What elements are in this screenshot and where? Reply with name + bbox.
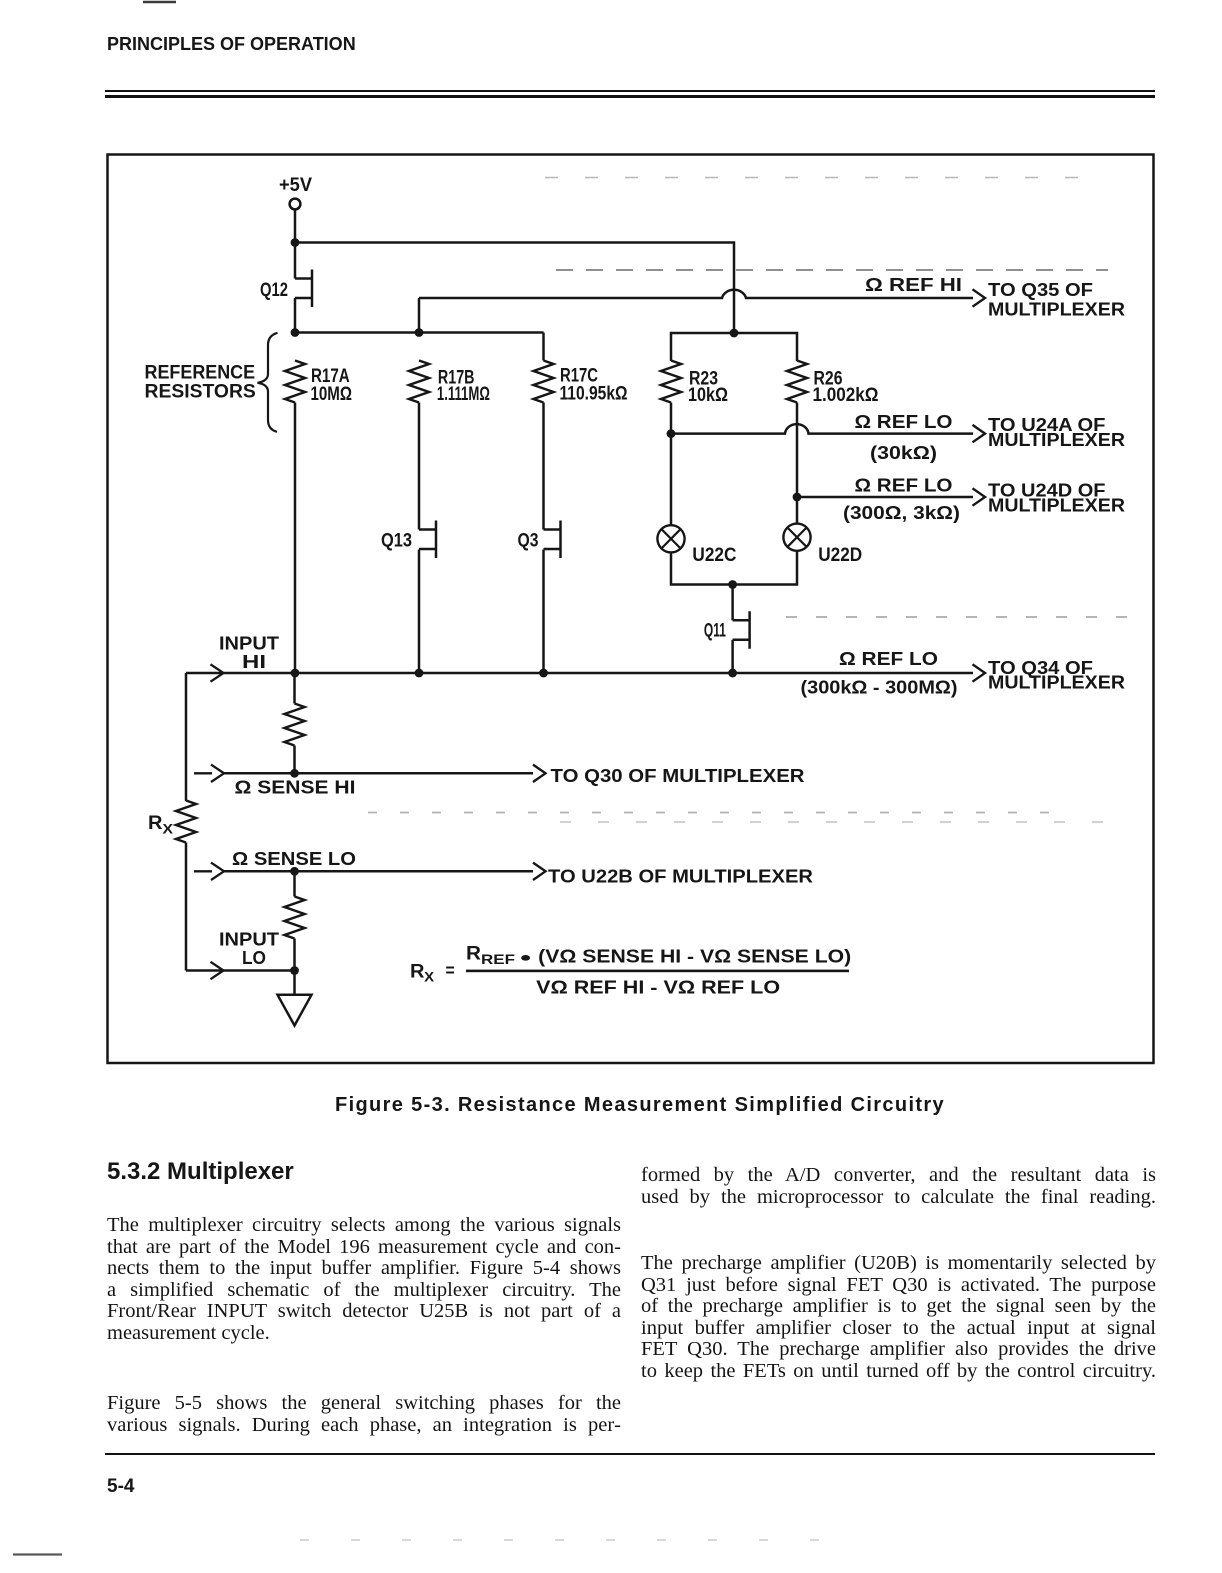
wire to ground: [293, 971, 296, 995]
right column paragraph 1: [641, 1165, 1156, 1208]
svg-text:Ω SENSE LO: Ω SENSE LO: [232, 848, 356, 869]
wire R26 to node: [796, 403, 799, 498]
resistor RX unknown: [176, 801, 196, 843]
svg-text:10kΩ: 10kΩ: [688, 385, 728, 406]
wire ΩREF HI line with hop: [419, 290, 973, 298]
wire Q3 to input bus: [542, 550, 545, 674]
wire Ω SENSE LO dashed stub: [194, 870, 212, 872]
wire R23 to node: [670, 403, 673, 434]
wire sense resistor top: [293, 673, 296, 704]
transistor Q3: [518, 521, 561, 559]
wire left rail lower: [185, 843, 188, 971]
wire Ω SENSE HI line: [224, 772, 533, 775]
transistor Q12: [260, 270, 312, 308]
footer rule: [105, 1453, 1155, 1456]
wire INPUT LO line: [186, 969, 295, 972]
wire +5V top rail to R23-R26 bus: [295, 243, 734, 334]
wire INPUT HI bus: [186, 672, 973, 675]
arrow Ω SENSE HI to Q30: [533, 765, 546, 782]
svg-text:X: X: [424, 969, 435, 985]
svg-text:Ω REF HI: Ω REF HI: [865, 274, 962, 295]
svg-text:1.111MΩ: 1.111MΩ: [437, 384, 490, 405]
left column paragraph 2: [107, 1393, 621, 1436]
svg-text:Q13: Q13: [381, 530, 412, 551]
resistor sense LO: [285, 897, 305, 939]
label TO Q35 OF MULTIPLEXER: [988, 279, 1125, 320]
svg-text:Q12: Q12: [260, 280, 288, 301]
svg-text:Ω REF LO: Ω REF LO: [855, 475, 953, 496]
svg-text:TO Q35 OF: TO Q35 OF: [988, 279, 1093, 300]
wire R17B to Q13: [418, 403, 421, 530]
node ΩREF LO 300 tap: [793, 493, 802, 502]
wire +5V to Q12 drain: [294, 209, 297, 278]
svg-text:(300Ω, 3kΩ): (300Ω, 3kΩ): [843, 502, 960, 523]
svg-text:RESISTORS: RESISTORS: [145, 381, 256, 402]
arrow ΩREF LO 300k-300M: [973, 664, 986, 681]
node sense LO at column: [290, 867, 299, 876]
node sense HI at R17A column: [290, 769, 299, 778]
reference resistors brace: [258, 333, 278, 432]
page header: [107, 34, 356, 55]
section heading: [107, 1158, 294, 1186]
svg-text:LO: LO: [242, 947, 266, 968]
wire R17A to input bus: [294, 403, 297, 674]
diode bridge U22C: [657, 525, 736, 566]
wire Q12 source to reference bus: [294, 298, 297, 333]
arrow Ω SENSE HI: [211, 765, 224, 782]
wire sense LO resistor top: [293, 871, 296, 896]
svg-text:REF: REF: [481, 951, 516, 967]
label RX: [148, 813, 174, 837]
svg-text:VΩ REF HI - VΩ REF LO: VΩ REF HI - VΩ REF LO: [536, 977, 780, 998]
node INPUT LO junction: [290, 966, 299, 975]
wire ΩREF LO 300-3k line: [797, 496, 973, 499]
wire R23 node to U22C: [670, 434, 673, 526]
wire R17C top corner: [542, 333, 545, 361]
node input bus at Q11: [728, 669, 737, 678]
svg-text:=: =: [446, 959, 455, 980]
resistor sense HI: [285, 704, 305, 746]
svg-text:Ω REF LO: Ω REF LO: [839, 648, 938, 669]
svg-text:R: R: [148, 813, 163, 834]
node reference bus at R17A: [291, 328, 300, 337]
ground: [278, 995, 312, 1026]
node +5V rail junction: [291, 238, 300, 247]
node Q11 drain junction: [728, 580, 737, 589]
svg-text:(30kΩ): (30kΩ): [870, 442, 937, 463]
wire R26 node to U22D: [796, 497, 799, 524]
svg-text:Ω REF LO: Ω REF LO: [855, 411, 953, 432]
label INPUT HI: [219, 633, 280, 672]
svg-text:TO Q30 OF MULTIPLEXER: TO Q30 OF MULTIPLEXER: [551, 765, 805, 786]
svg-text:HI: HI: [242, 651, 266, 672]
resistor R26 1.002kΩ: [787, 361, 879, 406]
svg-text:MULTIPLEXER: MULTIPLEXER: [988, 299, 1125, 320]
page number: [107, 1476, 134, 1498]
arrow ΩREF LO 30k: [973, 425, 986, 442]
right column paragraph 2: [641, 1253, 1156, 1382]
+5V terminal: [290, 199, 301, 210]
arrow INPUT LO: [211, 962, 224, 979]
node ΩREF LO 30k tap: [667, 429, 676, 438]
svg-text:Ω SENSE HI: Ω SENSE HI: [235, 776, 356, 797]
svg-text:Q11: Q11: [704, 621, 726, 642]
svg-text:(VΩ SENSE HI - VΩ SENSE LO): (VΩ SENSE HI - VΩ SENSE LO): [538, 946, 851, 967]
wire R23-R26 bus: [671, 333, 797, 361]
transistor Q11: [704, 611, 750, 649]
wire ΩREF HI tap: [418, 298, 421, 333]
wire ΩREF LO 30k line with hop: [671, 424, 973, 434]
svg-text:110.95kΩ: 110.95kΩ: [560, 383, 628, 404]
svg-text:(300kΩ - 300MΩ): (300kΩ - 300MΩ): [801, 677, 958, 698]
svg-text:MULTIPLEXER: MULTIPLEXER: [988, 495, 1125, 516]
svg-text:U22C: U22C: [692, 545, 736, 566]
wire Q11 to input bus: [731, 640, 734, 673]
svg-text:1.002kΩ: 1.002kΩ: [813, 385, 879, 406]
label INPUT LO: [219, 929, 280, 968]
svg-text:TO U22B OF MULTIPLEXER: TO U22B OF MULTIPLEXER: [548, 865, 813, 886]
arrow INPUT HI: [211, 664, 224, 681]
schematic frame: [108, 155, 1154, 1064]
svg-text:+5V: +5V: [279, 175, 312, 196]
label TO U24D OF MULTIPLEXER: [988, 480, 1125, 516]
svg-text:X: X: [163, 821, 174, 837]
resistor R23 10kΩ: [661, 361, 728, 406]
node input bus at Q3: [539, 669, 548, 678]
wire node to Q11: [731, 585, 734, 621]
resistor R17C 110.95kΩ: [534, 361, 628, 405]
svg-text:R: R: [410, 962, 425, 983]
node reference bus at R17B: [415, 328, 424, 337]
svg-text:MULTIPLEXER: MULTIPLEXER: [988, 429, 1125, 450]
equation RX formula: [410, 944, 851, 998]
label TO Q34 OF MULTIPLEXER: [988, 657, 1125, 693]
svg-text:●: ●: [519, 950, 532, 965]
node R23-R26 bus junction: [730, 329, 739, 338]
header double rule: [105, 90, 1155, 92]
svg-text:MULTIPLEXER: MULTIPLEXER: [988, 672, 1125, 693]
transistor Q13: [381, 521, 436, 559]
figure caption: [335, 1094, 945, 1117]
wire sense resistor bottom: [293, 746, 296, 774]
wire sense LO resistor bottom: [293, 939, 296, 971]
svg-text:Q3: Q3: [518, 530, 539, 551]
arrow Ω SENSE LO: [211, 863, 224, 880]
node input bus at R17A: [291, 669, 300, 678]
wire reference resistor bus: [295, 331, 544, 334]
arrow Ω SENSE LO to U22B: [533, 863, 546, 880]
wire R17C to Q3: [542, 403, 545, 530]
svg-text:U22D: U22D: [818, 545, 862, 566]
wire Ω SENSE LO line: [224, 870, 533, 873]
svg-text:R: R: [466, 944, 481, 965]
arrow ΩREF HI: [973, 289, 986, 306]
left column paragraph 1: [107, 1215, 621, 1344]
wire U22D to Q11 node: [733, 551, 797, 585]
resistor R17B 1.111MΩ: [409, 361, 490, 405]
arrow ΩREF LO 300-3k: [973, 488, 986, 505]
label REFERENCE RESISTORS: [145, 363, 256, 403]
wire input HI to LO left rail: [185, 673, 188, 801]
node input bus at Q13: [415, 669, 424, 678]
resistor R17A 10MΩ: [285, 361, 352, 405]
diode bridge U22D: [783, 524, 862, 567]
wire Ω SENSE HI dashed stub: [194, 772, 212, 774]
svg-text:10MΩ: 10MΩ: [311, 384, 353, 405]
wire U22C to Q11 node: [671, 552, 733, 584]
wire Q13 to input bus: [418, 550, 421, 674]
label TO U24A OF MULTIPLEXER: [988, 414, 1125, 450]
